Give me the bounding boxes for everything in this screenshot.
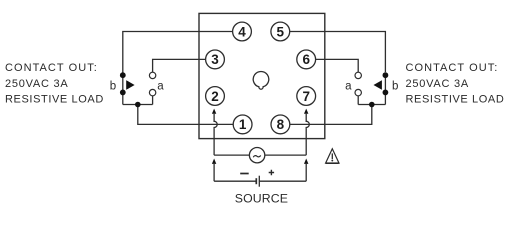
arrow battery left [212,159,216,164]
arrow into pin7 [304,109,308,114]
svg-text:8: 8 [277,117,285,132]
svg-text:4: 4 [238,24,246,39]
AC supply rail [214,154,306,156]
right contact a bottom stub [357,96,359,105]
left contact b lower dot [120,90,126,96]
right contact b line [384,75,386,105]
svg-text:CONTACT OUT:: CONTACT OUT: [406,62,499,74]
wire pin4 to left contact b [123,32,233,73]
right junction dot [369,102,375,108]
left contact a upper circle [149,72,155,78]
svg-text:2: 2 [211,89,219,104]
pin 8 [271,115,290,134]
source vertical left with hop [214,114,217,155]
svg-text:a: a [345,80,352,92]
warning triangle [326,149,339,163]
svg-text:SOURCE: SOURCE [235,192,288,206]
svg-text:250VAC 3A: 250VAC 3A [406,78,469,90]
svg-text:CONTACT OUT:: CONTACT OUT: [5,62,98,74]
pin 1 [233,115,252,134]
battery vertical left [213,164,215,181]
battery rail [214,180,306,182]
pin 4 [233,22,252,41]
svg-text:RESISTIVE LOAD: RESISTIVE LOAD [5,94,104,106]
pin 3 [206,50,225,69]
wire right common to pin8 [290,105,372,125]
svg-text:3: 3 [211,52,219,67]
battery long plate [258,176,260,187]
pin 7 [297,87,316,106]
left junction dot [135,102,141,108]
battery short plate [255,178,257,184]
AC tilde [253,155,260,157]
pin 6 [297,50,316,69]
left contact a bottom stub [152,96,154,105]
wire pin3 to left contact a [153,59,206,72]
wire left common to pin1 [138,105,233,125]
minus sign [240,173,249,175]
pin 5 [271,22,290,41]
svg-text:250VAC 3A: 250VAC 3A [5,78,68,90]
right contact moving arm triangle [374,80,382,90]
pin 2 [206,87,225,106]
source vertical right with hop [306,114,309,155]
right contact a lower circle [355,89,361,95]
left contact b upper dot [120,72,126,78]
AC source circle [249,148,264,163]
right contact b upper dot [383,72,389,78]
svg-text:a: a [157,80,164,92]
plus sign [269,170,274,175]
socket outline box [199,13,325,138]
battery vertical right [305,164,307,181]
wire pin6 to right contact a [316,59,359,72]
svg-text:6: 6 [302,52,310,67]
svg-text:RESISTIVE LOAD: RESISTIVE LOAD [406,94,505,106]
svg-text:b: b [110,80,116,92]
socket keyhole [253,71,269,89]
svg-text:5: 5 [277,24,285,39]
svg-text:1: 1 [239,117,247,132]
arrow into pin2 [212,109,216,114]
left contact moving arm triangle [126,80,134,90]
svg-text:7: 7 [302,89,310,104]
left contact common bar [123,104,153,106]
svg-text:b: b [392,80,398,92]
arrow battery right [304,159,308,164]
wire pin5 to right contact b [290,32,386,73]
left contact a lower circle [149,89,155,95]
right contact common bar [358,104,385,106]
right contact b lower dot [383,90,389,96]
right contact a upper circle [355,72,361,78]
left contact b line [122,75,124,104]
